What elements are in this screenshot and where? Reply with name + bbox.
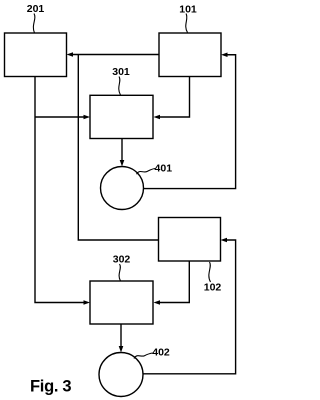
svg-text:301: 301 [112, 66, 130, 78]
svg-text:102: 102 [204, 282, 222, 294]
svg-text:302: 302 [113, 254, 131, 266]
svg-text:Fig. 3: Fig. 3 [30, 377, 71, 395]
svg-text:201: 201 [27, 3, 45, 15]
svg-text:101: 101 [179, 4, 197, 16]
svg-text:402: 402 [152, 347, 170, 359]
svg-text:401: 401 [155, 163, 173, 175]
